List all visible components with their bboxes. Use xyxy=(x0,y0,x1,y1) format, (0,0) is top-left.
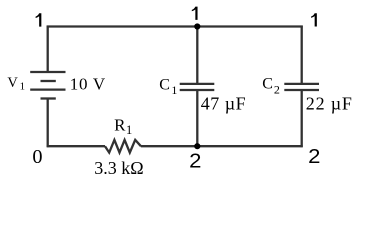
svg-text:2: 2 xyxy=(189,150,201,172)
wire bottom right segment node 2 xyxy=(141,145,303,147)
wire left vertical upper (battery top lead) xyxy=(47,26,49,72)
svg-text:1: 1 xyxy=(126,123,132,137)
svg-text:0: 0 xyxy=(32,146,42,168)
svg-text:10 V: 10 V xyxy=(70,75,106,94)
node label 1 top-left xyxy=(36,13,42,26)
wire middle vertical lower (C1 bottom lead) xyxy=(196,90,198,147)
svg-text:C: C xyxy=(159,76,170,93)
resistor R1 zigzag xyxy=(105,140,141,153)
capacitor C2 plate top xyxy=(284,83,319,85)
battery V1 plate short xyxy=(41,80,56,82)
svg-text:3.3 kΩ: 3.3 kΩ xyxy=(94,158,143,178)
svg-text:47 µF: 47 µF xyxy=(201,94,246,114)
node label 1 top-middle xyxy=(192,7,198,20)
svg-text:1: 1 xyxy=(171,83,177,97)
wire right vertical lower (C2 bottom lead) xyxy=(301,90,303,147)
svg-text:V: V xyxy=(7,75,18,91)
svg-text:C: C xyxy=(262,76,273,93)
svg-text:1: 1 xyxy=(20,81,26,93)
wire left vertical lower (battery bottom lead) xyxy=(47,99,49,148)
svg-text:22 µF: 22 µF xyxy=(306,94,353,114)
wire right vertical upper (C2 top lead) xyxy=(301,26,303,84)
wire middle vertical upper (C1 top lead) xyxy=(196,27,198,84)
junction dot node 1 xyxy=(194,23,200,29)
wire bottom left segment node 0 xyxy=(47,145,105,147)
battery V1 plate short bottom xyxy=(41,97,56,99)
svg-text:2: 2 xyxy=(308,146,320,168)
capacitor C1 plate top xyxy=(180,83,215,85)
svg-text:2: 2 xyxy=(274,83,280,97)
capacitor C1 plate bottom xyxy=(180,89,215,91)
svg-text:R: R xyxy=(114,115,126,134)
node label 1 top-right xyxy=(311,13,317,26)
junction dot node 2 xyxy=(194,143,200,149)
capacitor C2 plate bottom xyxy=(284,89,319,91)
battery V1 plate long top xyxy=(30,71,65,73)
battery V1 plate long lower xyxy=(30,88,65,90)
wire top horizontal node 1 xyxy=(47,25,303,27)
